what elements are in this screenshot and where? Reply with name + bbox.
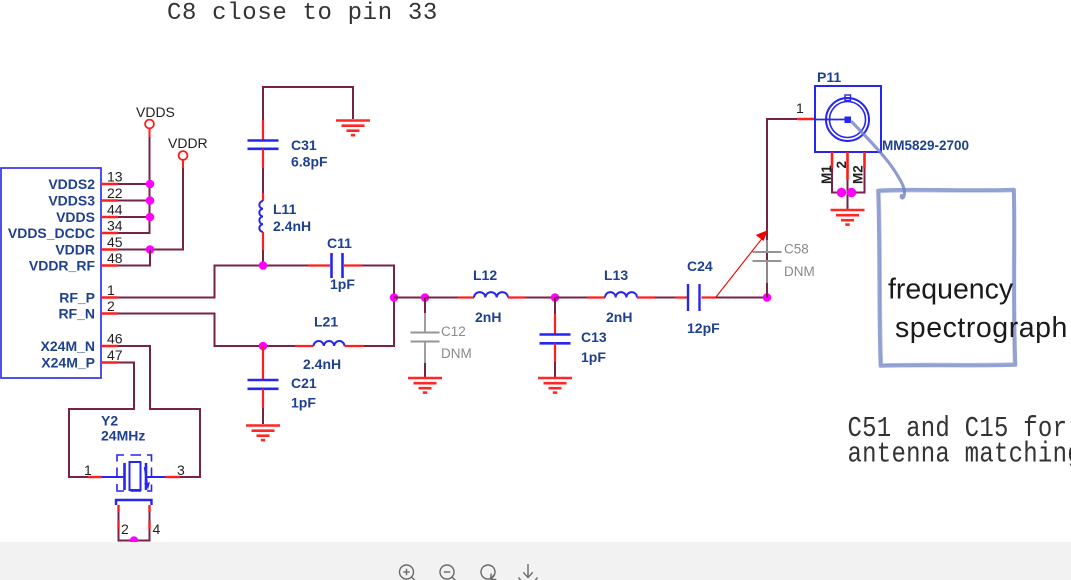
wire L13 to C24 xyxy=(637,296,688,298)
junction dot C12 node xyxy=(421,293,430,302)
svg-text:spectrograph: spectrograph xyxy=(895,312,1068,344)
svg-text:MM5829-2700: MM5829-2700 xyxy=(882,138,969,153)
crystal Y2 symbol xyxy=(88,455,180,491)
svg-text:L13: L13 xyxy=(604,267,628,283)
capacitor C11 xyxy=(332,253,343,278)
svg-text:VDDS: VDDS xyxy=(136,104,175,120)
svg-text:C8 close to pin 33: C8 close to pin 33 xyxy=(167,0,438,27)
svg-text:1: 1 xyxy=(107,282,115,298)
wire M1 to ground stem xyxy=(832,169,842,193)
svg-text:2: 2 xyxy=(834,161,849,169)
capacitor C21 xyxy=(248,380,279,389)
svg-text:3: 3 xyxy=(177,462,185,478)
svg-text:47: 47 xyxy=(107,347,123,363)
svg-text:34: 34 xyxy=(107,218,123,234)
svg-text:L12: L12 xyxy=(473,267,497,283)
pin 44 VDDS xyxy=(56,202,123,226)
junction dot 13 xyxy=(146,180,155,189)
wire pin45 to VDDR xyxy=(118,249,184,251)
crystal case ground bracket xyxy=(116,500,152,505)
pin 1 RF_P xyxy=(59,282,118,306)
svg-text:2nH: 2nH xyxy=(475,309,501,325)
svg-text:DNM: DNM xyxy=(441,346,472,361)
power terminal VDDS xyxy=(136,104,175,128)
wire L12 to C13 node xyxy=(508,296,556,298)
wire right vertical of box xyxy=(393,265,395,348)
wire red lead into P11 xyxy=(797,118,815,121)
junction dot box output xyxy=(390,293,399,302)
wire pin34 to VDDS xyxy=(118,232,151,234)
wire C24 to antenna node xyxy=(702,296,769,298)
annotation pointer squiggle xyxy=(852,122,904,198)
pin 13 VDDS2 xyxy=(48,169,122,193)
svg-text:1: 1 xyxy=(796,100,804,116)
wire red lead left of C11 xyxy=(308,264,330,266)
junction dot antenna node xyxy=(763,293,772,302)
svg-text:Y2: Y2 xyxy=(101,413,118,429)
pin M1 stub xyxy=(819,152,834,184)
svg-text:1: 1 xyxy=(84,462,92,478)
junction dot crystal bottom xyxy=(130,536,139,545)
wire red lead right of L21 xyxy=(345,345,365,347)
wire crystal bottom xyxy=(118,540,151,542)
svg-text:VDDS: VDDS xyxy=(56,209,95,225)
wire M2 to ground stem xyxy=(851,169,865,193)
wire C13 node down xyxy=(554,298,556,335)
svg-text:VDDS3: VDDS3 xyxy=(48,193,95,209)
svg-text:antenna matching: antenna matching xyxy=(848,438,1071,471)
svg-text:2.4nH: 2.4nH xyxy=(273,218,311,234)
toolbar icon zoom in xyxy=(400,565,417,580)
ground (C21) xyxy=(246,426,280,441)
svg-text:2: 2 xyxy=(121,521,129,537)
wire VDDR vertical xyxy=(182,160,184,250)
svg-text:1pF: 1pF xyxy=(330,276,355,292)
inductor L12 xyxy=(474,292,508,297)
svg-text:C13: C13 xyxy=(581,329,607,345)
pin 48 VDDR_RF xyxy=(29,250,123,274)
inductor L11 xyxy=(259,201,263,232)
svg-text:C24: C24 xyxy=(687,258,713,274)
ground (C13) xyxy=(538,378,572,393)
junction dot 44 xyxy=(146,213,155,222)
pin 47 X24M_P xyxy=(41,347,122,371)
capacitor C24 xyxy=(688,284,700,311)
svg-text:VDDR: VDDR xyxy=(168,135,208,151)
capacitor C31 xyxy=(248,141,279,149)
inductor L21 xyxy=(314,341,345,346)
svg-text:44: 44 xyxy=(107,202,123,218)
svg-text:22: 22 xyxy=(107,185,123,201)
connector P11 body xyxy=(815,86,881,152)
svg-text:12pF: 12pF xyxy=(687,320,720,336)
junction dot 45/48 xyxy=(146,245,155,254)
wire red lead above C31 xyxy=(262,120,264,141)
svg-text:C31: C31 xyxy=(291,137,317,153)
pin 34 VDDS_DCDC xyxy=(8,218,123,242)
toolbar icon reset view xyxy=(481,565,496,580)
pin 45 VDDR xyxy=(55,234,122,258)
svg-text:48: 48 xyxy=(107,250,123,266)
svg-text:VDDS2: VDDS2 xyxy=(48,176,95,192)
wire C13 node to L13 xyxy=(555,297,605,299)
wire red lead right of C11 xyxy=(344,264,362,266)
wire C21 to ground xyxy=(262,389,264,424)
wire C13 to ground xyxy=(554,343,556,377)
wire node to C21 xyxy=(262,346,264,380)
svg-text:X24M_P: X24M_P xyxy=(41,355,95,371)
svg-text:M2: M2 xyxy=(851,165,866,184)
IC body (left chip) xyxy=(1,168,101,378)
svg-text:P11: P11 xyxy=(817,69,841,85)
capacitor C58 (DNM, gray) xyxy=(753,240,782,283)
svg-text:DNM: DNM xyxy=(784,264,815,279)
svg-text:X24M_N: X24M_N xyxy=(41,338,95,354)
svg-text:RF_P: RF_P xyxy=(59,290,95,306)
toolbar icon download xyxy=(519,564,538,580)
svg-text:1pF: 1pF xyxy=(291,395,316,411)
wire pin48 up to pin45 wire xyxy=(118,250,150,267)
junction dot L11 node xyxy=(259,261,268,270)
svg-text:C58: C58 xyxy=(784,242,809,257)
junction dot C13 node xyxy=(551,293,560,302)
wire L11 to node xyxy=(262,232,264,266)
ground (top right of C31) xyxy=(336,121,370,136)
svg-text:2nH: 2nH xyxy=(606,309,632,325)
svg-text:C11: C11 xyxy=(327,235,352,251)
wire C12 to ground xyxy=(424,363,426,378)
svg-text:46: 46 xyxy=(107,331,123,347)
svg-text:VDDS_DCDC: VDDS_DCDC xyxy=(8,225,95,241)
svg-text:VDDR_RF: VDDR_RF xyxy=(29,258,96,274)
wire pin13 to VDDS xyxy=(118,183,151,185)
svg-text:24MHz: 24MHz xyxy=(101,428,145,444)
wire antenna node up to P11 xyxy=(767,119,797,298)
svg-text:L11: L11 xyxy=(273,201,297,217)
wire pin2 to ground stem xyxy=(847,180,849,209)
pin 2 stub xyxy=(834,152,849,180)
svg-text:2.4nH: 2.4nH xyxy=(303,356,341,372)
ground (P11) xyxy=(831,210,865,225)
junction dot 22 xyxy=(146,196,155,205)
wire crystal pin 2 xyxy=(117,505,119,541)
wire pin22 to VDDS xyxy=(118,200,151,202)
pin 46 X24M_N xyxy=(41,331,123,355)
toolbar icon zoom out xyxy=(440,565,457,580)
wire pin44 to VDDS xyxy=(118,216,151,218)
wire C12 node down xyxy=(424,298,426,314)
wire red lead left of L21 xyxy=(295,345,314,347)
wire crystal pin 4 xyxy=(148,505,150,541)
power terminal VDDR xyxy=(168,135,208,160)
annotation hand-drawn box xyxy=(878,190,1016,367)
pin 2 RF_N xyxy=(58,298,118,322)
note C51 and C15 line 1 xyxy=(848,412,1068,445)
svg-text:45: 45 xyxy=(107,234,123,250)
wire C11 to right vertical xyxy=(362,265,395,267)
svg-text:13: 13 xyxy=(107,169,123,185)
svg-text:RF_N: RF_N xyxy=(58,306,95,322)
note C51 and C15 line 2 xyxy=(848,438,1071,471)
svg-text:VDDR: VDDR xyxy=(55,242,95,258)
svg-text:C12: C12 xyxy=(441,324,466,339)
wire box to C12 node xyxy=(394,297,426,299)
wire RF_P run xyxy=(118,266,308,298)
wire C31 to L11 xyxy=(262,149,264,201)
toolbar background xyxy=(0,542,1071,580)
wire L21 to right vertical xyxy=(364,345,395,347)
junction dot M2 xyxy=(847,188,857,198)
wire top loop to ground xyxy=(263,87,353,141)
inductor L13 xyxy=(605,292,637,297)
svg-text:6.8pF: 6.8pF xyxy=(291,154,328,170)
svg-text:2: 2 xyxy=(107,298,115,314)
ground (C12) xyxy=(408,378,442,393)
wire pin46 to crystal right xyxy=(118,346,200,477)
svg-text:1pF: 1pF xyxy=(581,349,606,365)
wire C12 node to L12 xyxy=(425,297,474,299)
pin 22 VDDS3 xyxy=(48,185,122,209)
capacitor C13 xyxy=(540,335,571,344)
junction dot C21 node xyxy=(259,342,268,351)
wire RF_N run xyxy=(118,314,295,347)
svg-text:frequency: frequency xyxy=(888,274,1014,306)
svg-text:4: 4 xyxy=(153,521,161,537)
pin M2 stub xyxy=(851,152,866,184)
wire VDDS vertical xyxy=(149,128,151,233)
capacitor C12 (DNM, gray) xyxy=(411,313,440,363)
annotation arrow (red) xyxy=(716,230,768,297)
wire pin47 to crystal left xyxy=(69,363,134,478)
svg-text:C21: C21 xyxy=(291,375,317,391)
junction dot M1 xyxy=(837,188,847,198)
svg-text:L21: L21 xyxy=(314,314,338,330)
